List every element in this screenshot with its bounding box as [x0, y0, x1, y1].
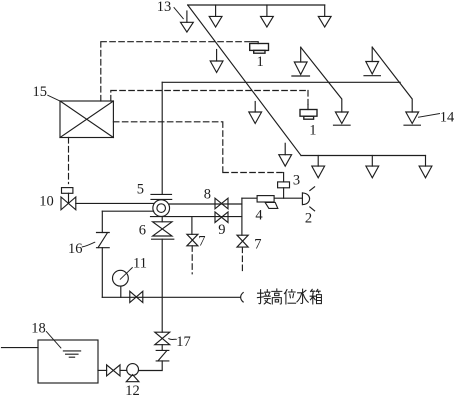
water motor gong 2 sound ray lower: [310, 207, 315, 211]
leader line 11: [120, 268, 132, 280]
pipe break symbol: [241, 293, 244, 302]
valve 7 left hourglass body: [187, 234, 198, 246]
svg-text:7: 7: [254, 237, 261, 253]
leader line 16: [82, 242, 95, 247]
sprinkler pendent P3 head: [279, 155, 292, 167]
pump 12 base triangle: [126, 375, 139, 382]
pipe gauge drain from alarm valve left: [102, 210, 153, 212]
pipe hook diagonal 1: [301, 47, 342, 112]
gate valve 6 body: [153, 222, 172, 236]
pipe riser bottom elbow to pump: [139, 361, 163, 371]
sprinkler stem (bottom main end): [425, 156, 427, 167]
sprinkler pendent P3 stem: [284, 143, 286, 154]
sprinkler upright U2 head: [335, 112, 348, 124]
sprinkler upright U3 stem: [371, 47, 373, 61]
sprinkler pendent P2 stem: [254, 102, 256, 113]
note text 接高位水箱 (hand-drawn glyphs): [257, 289, 321, 304]
delay chamber 4 drain spout: [265, 202, 278, 208]
water tank 18: [38, 340, 98, 383]
pressure gauge 11 dial: [113, 270, 129, 286]
valve 8 body: [215, 198, 228, 209]
detector 1a body: [250, 44, 269, 54]
sprinkler upright U3 seat line: [364, 75, 380, 77]
sprinkler upright U1 stem: [300, 47, 302, 62]
sprinkler head (top main #2): [261, 16, 274, 27]
svg-text:7: 7: [198, 234, 205, 250]
wire detector 1b stub: [307, 105, 309, 110]
glyph 水: [297, 289, 308, 303]
pipe middle branch main: [162, 81, 400, 83]
svg-text:15: 15: [33, 84, 48, 100]
pressure switch 3 body: [278, 182, 290, 188]
exhauster box 15: [60, 101, 113, 138]
wire pressure switch 3 drop: [283, 188, 285, 198]
sprinkler stem (bottom main #2): [371, 156, 373, 167]
svg-text:16: 16: [68, 241, 83, 257]
sprinkler pendent P1 stem: [216, 50, 218, 62]
svg-text:17: 17: [176, 334, 191, 350]
pipe drain vertical lower: [101, 248, 103, 298]
sprinkler stem (top main #1): [215, 5, 217, 16]
svg-text:4: 4: [255, 207, 263, 223]
suction valve body: [107, 365, 120, 376]
delay chamber 4 body: [257, 196, 274, 202]
svg-text:10: 10: [39, 193, 54, 209]
sprinkler 13 stem: [186, 11, 188, 22]
svg-text:9: 9: [218, 222, 225, 238]
alarm valve 5 flange upper: [151, 193, 172, 195]
pipe stub to valve 7 left: [191, 217, 193, 235]
pipe between valve 17 and check valve: [161, 345, 163, 351]
glyph 箱: [310, 289, 321, 304]
tank water level mark: [63, 351, 80, 357]
leader line 15: [48, 95, 60, 101]
pipe drain vertical upper: [101, 211, 103, 232]
sprinkler upright U1 seat line: [292, 75, 310, 77]
leader line 14: [419, 114, 440, 118]
glyph 高: [272, 289, 282, 304]
glyph 位: [284, 290, 295, 305]
wire detector 1a stub: [252, 42, 259, 44]
svg-text:5: 5: [137, 182, 144, 198]
flange below valve 6: [152, 238, 174, 240]
pipe hook diagonal 2: [372, 47, 412, 112]
wire top main right end drop: [324, 5, 326, 16]
sprinkler head (bottom main #1): [312, 166, 325, 178]
svg-text:1: 1: [309, 122, 316, 138]
pipe drain horizontal to tank note: [102, 296, 240, 298]
svg-text:13: 13: [157, 0, 172, 15]
sprinkler upright U2 seat line: [334, 124, 351, 126]
valve 10 stem: [68, 193, 70, 203]
dashed signal line D3 (box 15 right to pressure switch 3): [113, 122, 283, 173]
sprinkler head (bottom main end): [419, 166, 432, 178]
check valve body (Z): [156, 350, 169, 361]
pipe alarm branch vertical x242: [241, 198, 243, 235]
pipe main riser lower: [161, 239, 163, 332]
leader line 18: [46, 332, 61, 348]
pipe riser stub below alarm valve: [161, 217, 163, 222]
valve 7 right hourglass body: [237, 235, 248, 247]
valve 10 actuator: [62, 188, 73, 194]
svg-text:1: 1: [257, 54, 264, 70]
dashed drain below valve 7 right: [241, 247, 243, 274]
wire pressure switch 3 stub: [283, 173, 285, 182]
alarm valve 5 body inner: [157, 204, 166, 213]
drain globe valve body: [130, 291, 143, 302]
svg-text:6: 6: [139, 222, 146, 238]
alarm valve 5 body outer: [153, 200, 170, 217]
leader line 13: [174, 8, 183, 19]
valve 10 body: [61, 197, 76, 210]
pipe alarm line to water motor gong: [242, 197, 303, 199]
sprinkler upright U3 head: [366, 62, 379, 75]
water motor gong 2 bell: [302, 193, 309, 205]
sprinkler 14 head: [406, 112, 419, 124]
sprinkler 14 seat line: [404, 124, 420, 126]
valve 9 body: [215, 212, 228, 223]
dashed signal line D2 (box 15 top to detector 1b): [111, 91, 308, 105]
sprinkler head (bottom main #2): [366, 166, 379, 178]
detector 1b body: [300, 110, 317, 120]
sprinkler pendent P1 head: [210, 61, 223, 73]
sprinkler upright U1 head: [294, 62, 307, 75]
stop valve 16 body (Z): [97, 233, 110, 248]
pipe lower bypass (valve 9 run): [151, 216, 242, 218]
pressure gauge 11 stem: [120, 286, 122, 297]
svg-text:2: 2: [305, 210, 312, 226]
sprinkler head (top main right end): [318, 16, 331, 27]
glyph 接: [257, 290, 270, 304]
dashed control line D4 (box 15 bottom to valve 10 actuator): [68, 138, 70, 184]
svg-text:18: 18: [31, 321, 46, 337]
svg-text:14: 14: [440, 109, 454, 125]
valve 17 hourglass body: [155, 332, 170, 345]
pipe upper bypass (valve 8 run): [170, 203, 242, 205]
dashed signal line D1 (box 15 top to detector 1a): [101, 42, 252, 101]
pipe tank outlet: [98, 369, 107, 371]
svg-text:12: 12: [125, 383, 140, 395]
pipe pump suction: [120, 369, 127, 371]
pipe diagonal run 1: [188, 5, 301, 156]
leader line 17: [169, 338, 177, 341]
sprinkler head (top main #1): [209, 16, 222, 27]
svg-text:8: 8: [204, 186, 211, 202]
pipe top branch main: [188, 4, 325, 6]
pipe tank inlet: [2, 347, 39, 349]
pipe main riser upper: [161, 82, 163, 194]
pump 12 casing: [127, 364, 139, 376]
pipe valve 10 to alarm valve 5: [76, 202, 154, 204]
sprinkler stem (top main #2): [266, 5, 268, 16]
sprinkler 13 head: [181, 22, 194, 32]
water motor gong 2 sound ray upper: [310, 187, 315, 191]
sprinkler pendent P2 head: [249, 112, 262, 124]
svg-text:3: 3: [293, 172, 300, 188]
dashed drain below valve 7 left: [191, 246, 193, 274]
pipe bottom branch main: [301, 155, 426, 157]
sprinkler stem (bottom main #1): [317, 156, 319, 167]
svg-text:11: 11: [133, 255, 147, 271]
alarm valve 5 flange lower: [151, 198, 172, 200]
